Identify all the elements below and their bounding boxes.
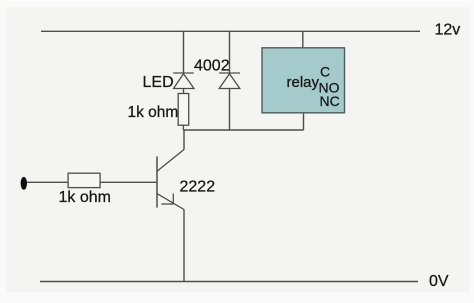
svg-text:0V: 0V: [429, 273, 449, 290]
wire top rail to relay: [302, 31, 304, 48]
input terminal: [21, 177, 27, 190]
wire 4002 diode to horizontal node: [229, 89, 231, 131]
svg-text:12v: 12v: [435, 22, 461, 39]
wire top rail to 4002 diode: [229, 31, 231, 73]
wire emitter to 0V rail: [183, 210, 185, 282]
wire relay bottom to horizontal node: [303, 113, 305, 130]
wire 0V bottom rail: [40, 281, 418, 283]
wire 1k resistor to collector node: [182, 125, 184, 130]
svg-text:relay: relay: [287, 74, 320, 91]
wire 12v top rail: [41, 30, 420, 32]
svg-text:4002: 4002: [194, 57, 230, 74]
wire input to base resistor: [27, 181, 69, 183]
resistor R1 1k ohm (base, horizontal): [68, 173, 100, 187]
wire base resistor to transistor base: [100, 181, 157, 183]
svg-text:1k ohm: 1k ohm: [59, 189, 111, 206]
svg-text:LED: LED: [143, 74, 174, 91]
transistor Q1 2222: [157, 150, 184, 210]
svg-text:NC: NC: [320, 93, 340, 109]
svg-text:C: C: [320, 64, 330, 80]
resistor R2 1k ohm (LED, vertical): [178, 94, 189, 126]
svg-text:1k ohm: 1k ohm: [128, 104, 179, 121]
wire top rail to LED: [183, 31, 185, 73]
svg-text:2222: 2222: [180, 179, 216, 196]
LED D1: [173, 73, 194, 89]
relay K1: [262, 48, 345, 113]
diode D2 4002: [219, 73, 240, 89]
wire collector vertical: [183, 130, 185, 150]
wire LED to 1k resistor: [183, 89, 185, 94]
wire collector node horizontal to relay: [183, 129, 303, 131]
